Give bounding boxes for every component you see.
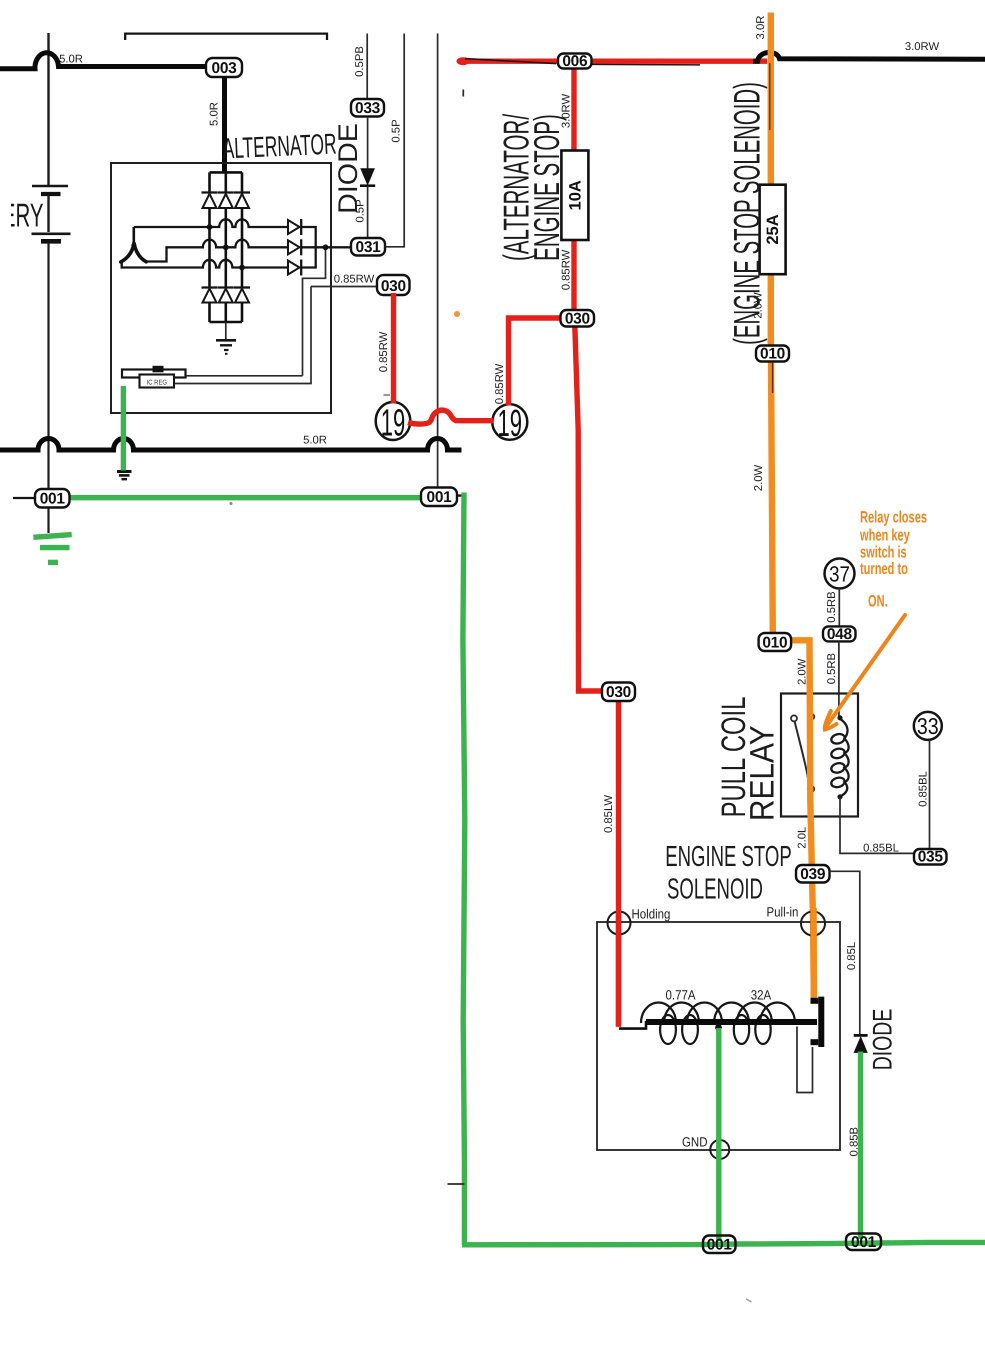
solenoid box: [597, 922, 840, 1150]
green wire right vertical long: [463, 493, 465, 1245]
svg-text:030: 030: [565, 310, 590, 327]
node junction output/IC tap: [323, 244, 329, 250]
relay contact fixed bottom: [808, 786, 814, 792]
diode (accessory): [361, 169, 374, 185]
wire right diode outputs joined: [301, 227, 352, 268]
red wire squiggle between 19 circles: [408, 410, 493, 424]
svg-text:ENGINE STOP): ENGINE STOP): [526, 114, 567, 261]
red wire 030#3 down to Holding coil: [616, 699, 621, 1027]
wire thick 5.0R vertical 003 to alternator: [222, 77, 227, 173]
wire thick 3.0RW with hump over orange: [753, 52, 985, 61]
svg-text:0.85RW: 0.85RW: [494, 363, 506, 404]
svg-text:10A: 10A: [566, 180, 584, 210]
svg-text:Relay closes: Relay closes: [860, 509, 927, 527]
red wire 030#2 down and to 030#3: [575, 325, 603, 691]
svg-text:Pull-in: Pull-in: [767, 905, 799, 920]
wire output to 031: [303, 247, 326, 375]
wire IC REG sense line B with 0.85RW out: [174, 287, 377, 384]
svg-text:0.85LW: 0.85LW: [603, 795, 615, 833]
svg-text:2.0W: 2.0W: [797, 658, 809, 685]
svg-text:0.85RW: 0.85RW: [378, 331, 390, 372]
wire stator phase U (top, y=227): [134, 219, 288, 227]
wire IC REG line A to box: [186, 375, 303, 377]
wire red end to coil bar: [619, 1021, 646, 1029]
svg-text:SOLENOID: SOLENOID: [667, 874, 763, 906]
relay contact fixed top: [809, 714, 814, 719]
svg-text:0.85RW: 0.85RW: [334, 274, 375, 286]
svg-text:Holding: Holding: [632, 907, 671, 922]
wire battery vertical top: [47, 33, 49, 186]
terminal GND circle: [710, 1140, 729, 1159]
orange wire 010#1 to 010#2: [771, 358, 773, 634]
ground green scribble: [33, 535, 71, 538]
terminal Holding circle: [608, 912, 631, 935]
svg-text:031: 031: [356, 239, 382, 256]
connector 003: [206, 58, 242, 77]
svg-text:0.85BL: 0.85BL: [863, 842, 899, 854]
svg-text:001: 001: [427, 489, 453, 506]
svg-text:IC REG: IC REG: [147, 380, 168, 387]
svg-text:RELAY: RELAY: [743, 725, 781, 821]
diode bottom (suppression): [854, 1034, 868, 1037]
bridge columns: [208, 172, 211, 192]
wire thick bottom bus 5.0R with humps: [0, 439, 462, 451]
svg-text:003: 003: [212, 60, 238, 77]
wire thick top bus 5.0R with hump over battery wire: [0, 53, 207, 69]
diode D-top-1: [202, 191, 218, 193]
node junction coil bar / ground: [715, 1024, 722, 1031]
svg-text:0.77A: 0.77A: [666, 988, 696, 1003]
terminal Pull-in circle: [801, 912, 825, 936]
IC REG inner box: [140, 375, 175, 388]
mark tiny dash above circle 19: [384, 394, 391, 396]
svg-text:ON.: ON.: [868, 593, 888, 611]
svg-text:switch is: switch is: [860, 544, 907, 562]
svg-text:0.85B: 0.85B: [848, 1127, 860, 1157]
svg-text:001: 001: [40, 491, 66, 508]
connector 030 #1: [377, 275, 410, 295]
svg-text:006: 006: [562, 53, 588, 70]
svg-text:030: 030: [381, 278, 406, 295]
green wire IC REG to ground: [121, 386, 126, 471]
svg-text:048: 048: [827, 626, 853, 643]
connector 001 right: [421, 488, 457, 507]
orange wire 010#2 jog to relay and down: [772, 640, 814, 1000]
plunger housing: [797, 1027, 813, 1093]
diode D-right-3: [288, 261, 300, 275]
IC REG blob: [153, 366, 164, 373]
bridge columns bottom: [208, 303, 211, 323]
wire stub left of 001: [13, 497, 36, 499]
svg-text:0.5PB: 0.5PB: [354, 46, 366, 77]
connector 033: [351, 99, 384, 117]
mark small gray dash bottom: [746, 1299, 752, 1302]
ground below IC REG wire: [117, 470, 132, 473]
ground alternator internal: [216, 339, 236, 342]
svg-text:turned to: turned to: [860, 560, 908, 578]
alternator box: [111, 163, 331, 413]
svg-text:when key: when key: [859, 527, 910, 545]
svg-text:0.85BL: 0.85BL: [918, 771, 930, 807]
red wire fuse to 030 #2: [571, 239, 576, 310]
circle 19 right: [492, 404, 527, 440]
plunger nub top: [811, 998, 819, 1004]
connector 001 bottom right: [846, 1234, 881, 1251]
diode D-bot-1: [202, 286, 218, 288]
green wire 001 bus horizontal: [70, 495, 423, 500]
relay switch arm: [795, 722, 809, 784]
mark orange dot stray: [454, 311, 460, 317]
red wire 030 to circle 19: [391, 293, 396, 403]
wire diode to 031: [367, 186, 369, 238]
svg-text:2.0W: 2.0W: [753, 464, 765, 491]
fuse 10A: [561, 151, 588, 241]
diode D-right-2: [288, 240, 300, 254]
svg-text:0.5P: 0.5P: [355, 199, 367, 222]
green wire diode to 001: [858, 1052, 863, 1240]
wire 033 to diode: [367, 117, 369, 170]
svg-text:0.5RB: 0.5RB: [826, 653, 838, 684]
wire bridge to ground: [225, 322, 227, 339]
wire 33 to 035: [929, 740, 931, 850]
svg-text:030: 030: [606, 684, 631, 701]
orange wire fuse to 010 #1: [768, 273, 774, 348]
svg-text:3.0RW: 3.0RW: [905, 41, 940, 53]
wire tick right of 001-R: [456, 494, 465, 496]
red wire into Holding (overlay): [616, 910, 621, 1027]
svg-text:2.0L: 2.0L: [797, 827, 809, 849]
IC REG outer box: [122, 370, 186, 378]
red wire 006 down to fuse: [571, 64, 576, 152]
relay coil loops: [837, 715, 842, 720]
solenoid coil bar: [646, 1019, 817, 1025]
diode D-top-3: [234, 191, 250, 193]
connector 030 #2: [561, 310, 595, 327]
svg-text:19: 19: [381, 403, 406, 445]
diode D-right-1: [288, 220, 300, 234]
stator winding: [133, 227, 136, 244]
connector 048: [823, 626, 856, 641]
svg-text:010: 010: [762, 635, 787, 652]
svg-text:19: 19: [498, 403, 523, 445]
orange wire into Pull-in (overlay): [810, 908, 817, 1000]
fuse 25A: [760, 185, 786, 275]
tick small below red start: [462, 90, 464, 97]
wire 0.5PB to 033: [366, 34, 368, 100]
diode D-bot-3: [234, 286, 250, 288]
svg-text:32A: 32A: [751, 988, 771, 1003]
svg-text:035: 035: [918, 849, 944, 866]
connector 010 #2: [759, 633, 792, 651]
red wire circle 19 up to 030 #2: [509, 318, 563, 406]
coil 32A loops: [714, 1002, 795, 1023]
svg-text:2.0W: 2.0W: [753, 292, 765, 319]
svg-text:001: 001: [707, 1237, 733, 1254]
wire 37 to 048: [838, 589, 840, 628]
svg-text:37: 37: [829, 562, 850, 587]
connector 001 left: [35, 489, 70, 508]
wire black tick on green vertical: [448, 1183, 465, 1185]
green wire coil junction to bottom 001: [716, 1028, 721, 1241]
svg-text:5.0R: 5.0R: [209, 102, 221, 126]
annotation arrow: [826, 615, 906, 728]
mark gray dot: [230, 502, 233, 505]
svg-text:0.5P: 0.5P: [391, 119, 403, 142]
svg-text:5.0R: 5.0R: [59, 54, 83, 66]
plunger bar: [818, 997, 824, 1047]
red wire top horizontal: [459, 59, 767, 64]
circle 37: [825, 559, 855, 589]
plunger nub bottom: [811, 1039, 819, 1045]
connector 030 #3: [602, 683, 635, 702]
svg-text:010: 010: [760, 346, 785, 363]
circle 33: [914, 712, 942, 740]
red wire start blob: [457, 57, 470, 65]
svg-text:039: 039: [800, 866, 826, 883]
bracket cut-off box at top: [125, 34, 327, 40]
node junction V / middle column: [223, 244, 229, 250]
coil 0.77A loops: [641, 1002, 722, 1023]
connector 010 #1: [756, 346, 789, 362]
connector 001 bottom left: [703, 1236, 736, 1254]
relay contact pivot: [791, 715, 797, 721]
connector 031: [351, 238, 385, 256]
wire battery vertical bottom to 001: [47, 243, 49, 533]
svg-text:33: 33: [917, 713, 939, 739]
svg-text:DIODE: DIODE: [868, 1009, 898, 1071]
node junction U / left column: [207, 224, 213, 230]
svg-text:GND: GND: [682, 1135, 708, 1150]
green wire bottom bus: [462, 1242, 985, 1244]
wire long vertical to 001: [437, 34, 439, 489]
svg-text:3.0R: 3.0R: [755, 16, 767, 40]
node junction W / right column: [239, 265, 245, 271]
wire coil to 035: [840, 797, 914, 853]
bridge bottom rail: [210, 321, 243, 324]
svg-text:001: 001: [851, 1234, 877, 1251]
svg-text:ENGINE STOP: ENGINE STOP: [665, 841, 792, 873]
diode D-top-2: [218, 191, 234, 193]
rectifier bridge top rail: [210, 171, 243, 174]
connector 035: [914, 849, 947, 865]
wire 039 right and down to diode: [830, 871, 860, 1034]
diode D-bot-2: [218, 286, 234, 288]
svg-text:0.85L: 0.85L: [846, 942, 858, 970]
svg-text:ALTERNATOR: ALTERNATOR: [222, 129, 337, 166]
wire 048 to relay coil: [838, 641, 840, 718]
svg-text:5.0R: 5.0R: [303, 435, 327, 447]
svg-text:033: 033: [355, 100, 381, 117]
battery plates: [32, 185, 68, 188]
wire 0.5P from 031 up: [385, 34, 404, 247]
connector 039: [796, 865, 830, 883]
bridge columns middle: [208, 208, 211, 288]
wire stator phase W (bottom, y=267.5): [122, 260, 288, 268]
wire stator phase V (middle, y=247): [145, 240, 289, 262]
connector 006: [558, 54, 592, 69]
pull coil relay box: [781, 694, 858, 817]
svg-text:0.5RB: 0.5RB: [826, 591, 838, 622]
circle 19 left: [376, 402, 411, 440]
orange wire top to fuse 25A: [768, 13, 774, 187]
